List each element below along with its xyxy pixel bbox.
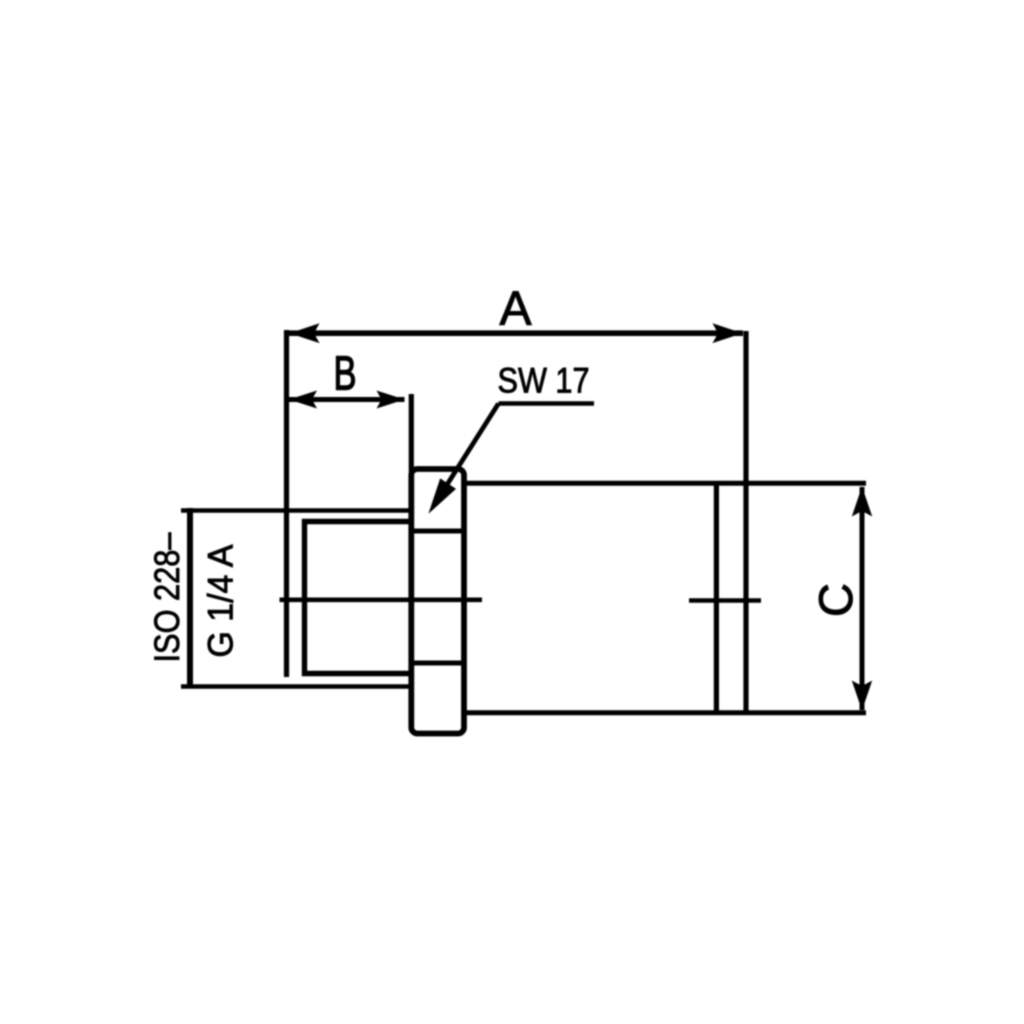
centerline left segment [280, 597, 483, 602]
thread crest top line with ISO tick [181, 508, 411, 513]
body bottom line / C extension [464, 710, 866, 715]
body right end face / extension line A right [743, 331, 748, 713]
svg-text:G 1/4 A: G 1/4 A [202, 544, 241, 658]
SW 17 leader line [443, 404, 499, 492]
hex facet top line [411, 529, 464, 534]
svg-text:A: A [499, 283, 531, 336]
extension line B right [409, 394, 414, 472]
dimension C top arrowhead [852, 487, 872, 517]
svg-text:SW 17: SW 17 [498, 362, 590, 401]
thread root outline [305, 522, 412, 674]
dimension B right arrowhead [377, 391, 405, 409]
dimension C bottom arrowhead [852, 681, 872, 711]
dimension C line [860, 487, 865, 710]
dimension B line [289, 397, 405, 402]
SW 17 leader underline [499, 401, 595, 406]
hex facet bottom line [411, 661, 464, 666]
thread crest bottom line with ISO tick [181, 684, 411, 689]
body groove line [714, 483, 719, 712]
dimension A right arrowhead [713, 323, 743, 343]
extension line left / stud end face [284, 330, 289, 677]
svg-text:B: B [334, 348, 357, 401]
SW 17 leader arrowhead [428, 478, 456, 513]
dimension B left arrowhead [289, 391, 317, 409]
svg-text:C: C [809, 583, 862, 617]
svg-text:ISO 228–: ISO 228– [148, 532, 187, 662]
ISO bracket line [187, 508, 193, 689]
body top line / C extension [464, 481, 866, 486]
hex nut outline [411, 469, 464, 734]
dimension A left arrowhead [290, 323, 320, 343]
dimension A line [289, 330, 743, 336]
centerline right segment [689, 598, 761, 603]
